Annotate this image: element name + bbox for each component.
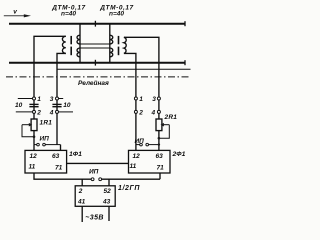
svg-text:63: 63: [52, 153, 60, 160]
svg-text:11: 11: [130, 163, 137, 170]
svg-text:1R1: 1R1: [40, 120, 53, 127]
svg-text:3: 3: [50, 96, 54, 103]
svg-text:Релейная: Релейная: [78, 79, 109, 87]
svg-text:2Ф1: 2Ф1: [172, 151, 186, 158]
svg-text:43: 43: [102, 198, 111, 205]
svg-text:1Ф1: 1Ф1: [69, 151, 82, 158]
svg-text:12: 12: [30, 153, 38, 160]
svg-text:2: 2: [36, 110, 41, 117]
svg-text:4: 4: [151, 110, 156, 117]
svg-text:63: 63: [156, 153, 164, 160]
svg-text:1/2ГП: 1/2ГП: [118, 185, 140, 192]
svg-text:52: 52: [104, 188, 112, 195]
svg-text:v: v: [13, 8, 17, 15]
svg-text:~35В: ~35В: [85, 215, 104, 222]
svg-text:3: 3: [152, 96, 156, 103]
svg-text:2: 2: [78, 188, 83, 195]
svg-text:41: 41: [77, 198, 86, 205]
svg-text:10: 10: [15, 102, 23, 109]
svg-text:4: 4: [49, 110, 54, 117]
svg-text:1: 1: [37, 96, 41, 103]
svg-text:n=40: n=40: [61, 11, 76, 18]
svg-text:10: 10: [63, 102, 71, 109]
svg-text:ИП: ИП: [135, 138, 145, 145]
svg-text:n=40: n=40: [109, 11, 124, 18]
svg-text:71: 71: [157, 164, 165, 171]
svg-text:71: 71: [55, 164, 63, 171]
svg-text:2R1: 2R1: [164, 114, 178, 121]
svg-text:11: 11: [29, 163, 36, 170]
svg-text:ИП: ИП: [40, 136, 50, 143]
svg-text:ИП: ИП: [89, 169, 99, 176]
svg-text:2: 2: [138, 110, 143, 117]
svg-text:1: 1: [139, 96, 143, 103]
svg-text:12: 12: [133, 153, 141, 160]
